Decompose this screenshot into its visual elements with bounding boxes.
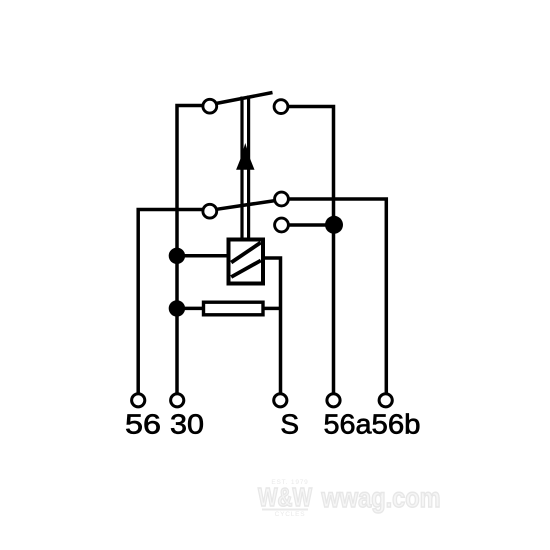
svg-text:30: 30 bbox=[170, 409, 204, 440]
svg-text:wwag.com: wwag.com bbox=[321, 482, 441, 513]
watermark W&W wwag.com bbox=[258, 479, 441, 518]
junction: 30 line / coil lead bbox=[169, 248, 185, 264]
svg-text:56a: 56a bbox=[324, 409, 372, 440]
wire: upper-right contact to 56b riser (x=385) bbox=[289, 199, 387, 394]
relay coil K1 (box with stripes) bbox=[229, 240, 264, 284]
wire: lower-right contact to junction bbox=[289, 223, 334, 227]
contact: S1 right bbox=[274, 100, 288, 114]
coil stripe 2 bbox=[231, 261, 261, 278]
junction: 30 line / resistor lead bbox=[169, 300, 185, 316]
svg-text:W&W: W&W bbox=[258, 482, 312, 512]
contact: S1 left (movable) bbox=[203, 99, 217, 113]
wire: coil left lead bbox=[177, 254, 227, 258]
wire: coil right lead to terminal S riser (x=280) bbox=[265, 258, 281, 394]
terminal 56b bbox=[379, 394, 392, 407]
resistor R1 bbox=[204, 302, 264, 315]
mechanical link (double line) bbox=[242, 96, 249, 239]
contact: S2 left (movable) bbox=[203, 204, 217, 218]
svg-text:56: 56 bbox=[125, 409, 161, 440]
coil stripe 1 bbox=[231, 243, 261, 263]
contact: S2 upper right bbox=[275, 192, 289, 206]
wire: terminal 56 riser (x=138) bbox=[138, 210, 203, 394]
junction: 56a line / lower contact bbox=[325, 216, 343, 234]
wire: resistor left lead bbox=[177, 307, 202, 311]
terminal 56a bbox=[327, 394, 340, 407]
svg-text:S: S bbox=[280, 409, 299, 440]
wire: top-right to 56a riser (x=333.5) bbox=[288, 107, 334, 394]
switch blade S1 (top contact arm) bbox=[217, 93, 273, 104]
actuation arrow on link bbox=[236, 143, 254, 170]
contact: S2 lower right bbox=[275, 218, 289, 232]
terminal S bbox=[274, 394, 287, 407]
svg-text:56b: 56b bbox=[372, 409, 421, 440]
wire: resistor right lead bbox=[265, 307, 281, 311]
svg-text:CYCLES: CYCLES bbox=[275, 511, 306, 518]
terminal 56 bbox=[132, 394, 145, 407]
switch blade S2 (middle contact arm) bbox=[217, 201, 276, 210]
terminal 30 bbox=[171, 394, 184, 407]
wire: terminal 30 riser (x=177) bbox=[177, 106, 203, 394]
